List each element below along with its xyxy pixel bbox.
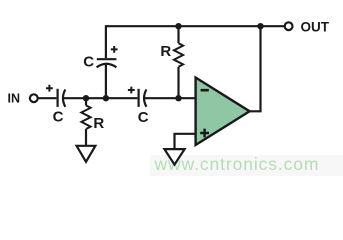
op-amp U1 — [196, 78, 250, 146]
wire C1 to node A — [63, 97, 137, 99]
wire op-amp non-inverting input to ground — [175, 134, 196, 149]
svg-text:IN: IN — [8, 91, 21, 105]
wire C2 to op-amp inverting input — [144, 97, 196, 99]
node E junction dot (feedback / OUT) — [257, 23, 263, 29]
ground (below R1) — [77, 146, 96, 162]
node D junction dot (top rail / R2) — [175, 23, 181, 29]
wire node A up through C3 to top rail — [105, 65, 107, 98]
svg-text:OUT: OUT — [301, 19, 330, 34]
wire C3 to top rail — [106, 26, 285, 58]
terminal OUT — [285, 22, 293, 30]
node A junction dot — [83, 95, 89, 101]
resistor R1 — [81, 98, 90, 145]
watermark background — [150, 155, 343, 176]
svg-text:C: C — [83, 54, 94, 71]
terminal IN — [30, 94, 38, 102]
capacitor C2 — [128, 87, 146, 107]
op-amp plus pin mark — [200, 129, 209, 138]
resistor R2 — [174, 26, 183, 98]
wire IN to C1 — [38, 97, 57, 99]
node B junction dot — [103, 95, 109, 101]
ground (below non-inverting input) — [164, 149, 184, 165]
svg-text:C: C — [53, 109, 64, 126]
wire op-amp output to feedback node — [250, 26, 261, 111]
op-amp minus pin mark — [201, 89, 209, 92]
capacitor C1 — [46, 85, 65, 107]
svg-text:R: R — [93, 115, 104, 132]
svg-text:C: C — [138, 109, 149, 126]
svg-text:R: R — [160, 43, 171, 60]
capacitor C3 — [97, 46, 118, 67]
node C junction dot (inverting input) — [175, 95, 181, 101]
